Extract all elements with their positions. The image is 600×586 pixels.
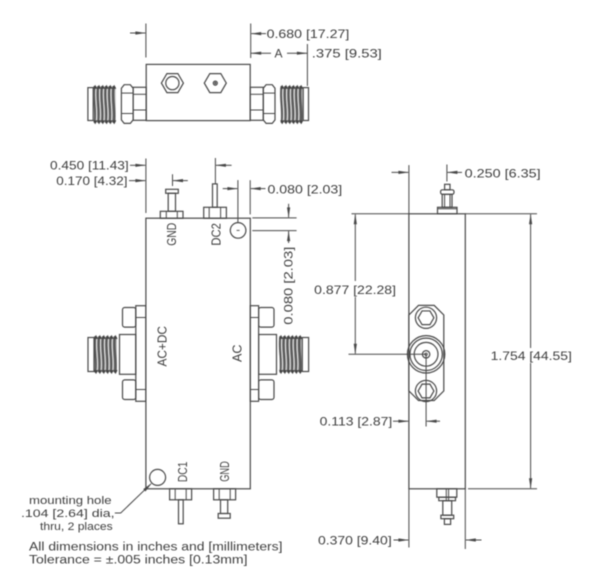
svg-text:All dimensions in inches and [: All dimensions in inches and [millimeter… xyxy=(29,542,283,554)
mounting hole note text xyxy=(21,495,115,533)
label AC xyxy=(231,345,245,363)
dimension 0.170 text and arrow xyxy=(56,174,146,188)
mounting hole top right xyxy=(230,223,246,239)
svg-text:.104 [2.64] dia,: .104 [2.64] dia, xyxy=(21,508,115,520)
top view left connector threads xyxy=(93,85,116,125)
side view top nut xyxy=(415,307,436,328)
svg-text:1.754 [44.55]: 1.754 [44.55] xyxy=(491,349,572,363)
top view left connector tip xyxy=(88,88,93,121)
dimension 0.680 right arrow and text xyxy=(251,27,350,41)
dimension 0.450 text and arrow xyxy=(50,159,146,173)
front view body xyxy=(146,218,250,489)
note tolerance xyxy=(29,555,247,567)
side view flange xyxy=(409,305,444,400)
GND pin tick and arrow xyxy=(173,174,188,186)
hole center extension line xyxy=(237,180,239,222)
svg-text:Tolerance = ±.005 inches [0.13: Tolerance = ±.005 inches [0.13mm] xyxy=(29,555,247,567)
front view right connector threads xyxy=(279,335,303,374)
vertical 0.080 extension lines xyxy=(252,218,296,231)
DC2 top pin xyxy=(204,184,227,218)
svg-text:0.450 [11.43]: 0.450 [11.43] xyxy=(50,159,129,173)
svg-text:.375 [9.53]: .375 [9.53] xyxy=(312,47,382,61)
svg-text:0.080 [2.03]: 0.080 [2.03] xyxy=(281,247,295,325)
dimension 1.754 text xyxy=(491,349,572,363)
bottom edge extension line xyxy=(468,488,537,490)
GND top pin xyxy=(160,189,183,218)
svg-text:GND: GND xyxy=(165,223,179,246)
0.250 pin tick xyxy=(446,165,448,182)
dimension 0.080 horizontal arrows and text xyxy=(223,183,343,197)
connector center crosshair xyxy=(349,354,427,426)
front view right connector tip xyxy=(302,338,308,372)
svg-text:0.680 [17.27]: 0.680 [17.27] xyxy=(267,27,350,41)
side view bottom nut xyxy=(415,380,436,401)
svg-text:mounting hole: mounting hole xyxy=(29,495,112,507)
DC1 bottom pin xyxy=(170,489,192,524)
dimension 0.680 extension line left xyxy=(145,24,147,58)
side body left edge extension up xyxy=(408,165,410,214)
svg-text:AC+DC: AC+DC xyxy=(155,326,169,367)
front view right connector top tab xyxy=(259,308,274,328)
note all dimensions xyxy=(29,542,283,554)
dimension 0.450/0.170 extension line xyxy=(145,159,147,214)
label GND top xyxy=(165,223,179,246)
svg-text:DC1: DC1 xyxy=(176,462,190,483)
label DC2 xyxy=(210,223,224,246)
front view left connector threads xyxy=(94,335,118,374)
dimension 0.250 arrows and text xyxy=(392,167,541,181)
mounting hole leader xyxy=(115,482,153,513)
DC2 pin tick and arrow xyxy=(215,158,231,184)
side body right edge extension down xyxy=(464,489,466,549)
svg-text:0.250 [6.35]: 0.250 [6.35] xyxy=(465,167,541,181)
dimension 1.754 line xyxy=(529,214,532,489)
top view hex screw left xyxy=(161,74,183,93)
dimension .375 text xyxy=(312,47,382,61)
GND bottom pin xyxy=(214,489,236,518)
side view bottom pin xyxy=(437,489,457,525)
svg-text:0.080 [2.03]: 0.080 [2.03] xyxy=(268,183,343,197)
top view right connector washer xyxy=(250,87,263,120)
side view top pin xyxy=(438,184,458,214)
svg-text:DC2: DC2 xyxy=(210,223,224,246)
front view right connector bottom tab xyxy=(259,380,274,400)
side body left edge extension down xyxy=(408,489,410,548)
side view SMA connector circles xyxy=(407,336,444,373)
front view left connector tip xyxy=(88,338,94,372)
front view left connector barrel xyxy=(120,335,136,375)
svg-text:0.170 [4.32]: 0.170 [4.32] xyxy=(56,174,127,188)
dimension 0.877 text xyxy=(314,283,396,297)
svg-text:thru, 2 places: thru, 2 places xyxy=(40,521,113,533)
svg-text:AC: AC xyxy=(231,345,245,363)
top view right connector threads xyxy=(280,85,303,125)
dimension 0.680 left arrow xyxy=(130,31,146,34)
dimension 0.680 extension line right xyxy=(250,24,252,59)
label AC+DC xyxy=(155,326,169,367)
svg-text:0.877 [22.28]: 0.877 [22.28] xyxy=(314,283,396,297)
top view hex screw right xyxy=(204,74,226,93)
top edge extension line xyxy=(352,213,538,215)
side view body xyxy=(409,214,465,489)
svg-text:GND: GND xyxy=(218,461,232,482)
vertical 0.080 [2.03] text xyxy=(281,247,295,325)
top view right connector nut xyxy=(263,85,275,124)
body right edge extension line xyxy=(249,180,251,214)
svg-text:A: A xyxy=(274,46,282,60)
dimension A xyxy=(251,46,308,60)
svg-text:0.370 [9.40]: 0.370 [9.40] xyxy=(318,533,392,547)
dimension .375 extension line xyxy=(306,44,308,86)
front view left connector bottom tab xyxy=(123,380,136,400)
dimension 0.113 arrows and text xyxy=(320,415,440,429)
front view left connector top tab xyxy=(123,308,136,328)
front view right connector flange plate xyxy=(250,306,258,402)
dimension 0.370 arrows and text xyxy=(318,533,482,547)
label DC1 xyxy=(176,462,190,483)
vertical 0.080 dimension line and arrows xyxy=(287,204,290,243)
mounting hole bottom left xyxy=(150,469,166,485)
svg-text:0.113 [2.87]: 0.113 [2.87] xyxy=(320,415,393,429)
top view right connector tip xyxy=(303,88,308,121)
label GND bottom xyxy=(218,461,232,482)
front view left connector flange plate xyxy=(136,306,146,402)
top view left connector washer xyxy=(133,87,146,120)
front view right connector barrel xyxy=(259,335,277,375)
dimension 0.877 line xyxy=(354,214,357,354)
top view left connector nut xyxy=(121,85,133,124)
top view body xyxy=(146,64,250,120)
